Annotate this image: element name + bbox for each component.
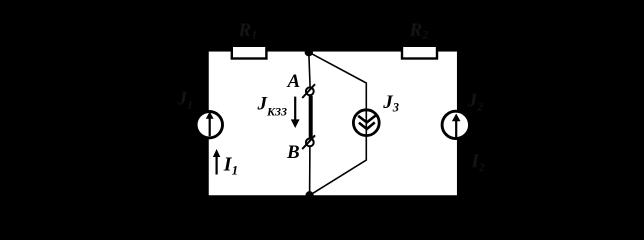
current source J2 (right circle): [442, 111, 469, 138]
svg-text:A: A: [287, 71, 301, 92]
wire top node to A: [309, 52, 310, 87]
node top: [305, 48, 313, 56]
diagonal wire bottom node to J3 branch: [310, 137, 367, 196]
circuit box (outer wires): [208, 50, 459, 196]
current source J1 (left circle): [196, 112, 222, 138]
terminal A: [302, 84, 315, 98]
arrow Jk33 (down): [291, 97, 300, 128]
short-circuit thick wire A-B: [309, 96, 313, 139]
terminal B: [302, 135, 315, 149]
wire B to bottom node: [309, 147, 311, 195]
arrow I1 (up): [213, 149, 220, 175]
node bottom: [305, 191, 313, 199]
current source J3 (middle circle): [353, 110, 379, 137]
resistor R2: [402, 46, 437, 59]
svg-text:B: B: [286, 142, 300, 163]
resistor R1: [232, 46, 267, 59]
diagonal wire top node to J3 branch: [309, 52, 367, 109]
